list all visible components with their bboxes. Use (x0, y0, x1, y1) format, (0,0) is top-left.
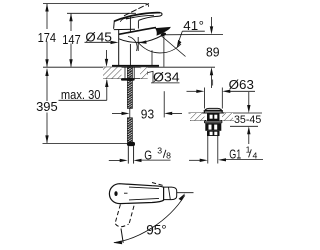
svg-text:45: 45 (97, 29, 112, 44)
svg-text:35-45: 35-45 (234, 114, 261, 126)
svg-text:G: G (144, 148, 152, 163)
svg-text:G1: G1 (229, 147, 241, 162)
svg-text:Ø63: Ø63 (229, 77, 254, 92)
svg-text:174: 174 (38, 30, 56, 45)
svg-text:max. 30: max. 30 (61, 87, 101, 102)
svg-text:8: 8 (166, 151, 171, 161)
svg-text:395: 395 (36, 99, 58, 114)
svg-text:89: 89 (206, 45, 220, 60)
svg-text:3: 3 (157, 146, 162, 156)
svg-text:93: 93 (141, 106, 154, 121)
svg-text:95°: 95° (146, 223, 167, 238)
svg-text:Ø34: Ø34 (153, 70, 180, 85)
svg-text:Ø: Ø (85, 29, 95, 44)
svg-text:4: 4 (253, 151, 258, 161)
svg-text:147: 147 (62, 32, 80, 47)
svg-text:°: ° (199, 18, 204, 33)
svg-text:41: 41 (183, 18, 198, 33)
